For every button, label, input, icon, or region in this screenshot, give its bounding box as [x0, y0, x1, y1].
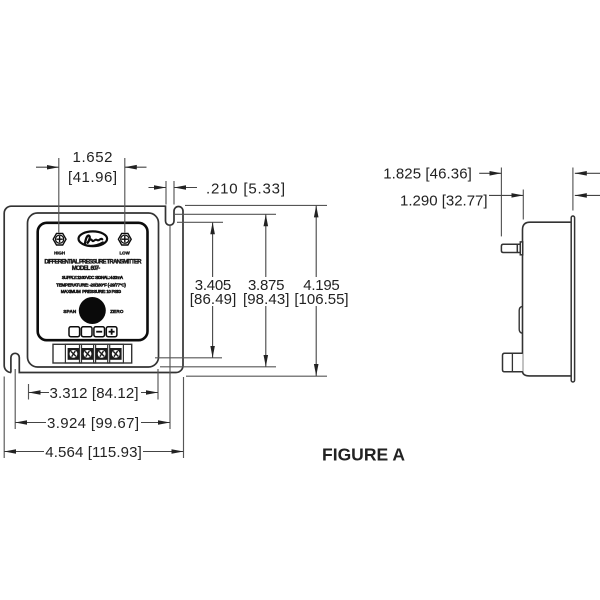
- screw HIGH (left hex screw): [53, 233, 66, 245]
- side view bottom terminal block: [503, 353, 523, 372]
- terminal block outer: [53, 344, 132, 363]
- screw LOW (right hex screw): [118, 233, 131, 245]
- dim 3.924 left arrow: [15, 422, 46, 424]
- indicator square 3 (minus): [94, 327, 105, 337]
- terminal cell 1: [65, 344, 81, 363]
- extension line body left bottom: [28, 384, 30, 400]
- svg-text:1.290 [32.77]: 1.290 [32.77]: [400, 193, 488, 210]
- extension line body left face: [522, 190, 524, 220]
- svg-text:[98.43]: [98.43]: [243, 291, 290, 308]
- svg-text:4.564 [115.93]: 4.564 [115.93]: [45, 444, 142, 461]
- svg-text:TEMPERATURE: -20/180°F (-29/77: TEMPERATURE: -20/180°F (-29/77°C): [56, 282, 126, 287]
- indicator square 1: [69, 327, 80, 337]
- extension line body top: [174, 213, 276, 215]
- svg-text:1.825 [46.36]: 1.825 [46.36]: [383, 166, 472, 183]
- extension line from screw LOW: [124, 158, 126, 233]
- side view small bump: [519, 306, 522, 333]
- dim 3.924 right arrow: [141, 422, 170, 424]
- side view mounting plate bar: [571, 216, 574, 382]
- extension line notch left: [165, 181, 167, 205]
- dim 1.825 right arrow at plate: [575, 172, 600, 174]
- svg-text:LOW: LOW: [119, 251, 130, 256]
- extension line plate right face: [572, 168, 574, 211]
- dim .210 right arrow: [174, 187, 197, 189]
- dim 3.312 right arrow: [141, 392, 158, 394]
- svg-text:ZERO: ZERO: [110, 309, 124, 315]
- extension line plate bottom: [186, 375, 327, 377]
- dim 3.875 vertical line lower: [265, 306, 267, 367]
- extension line notch center (long): [169, 225, 171, 429]
- dim 1.652 right arrow: [125, 166, 147, 168]
- svg-text:SPAN: SPAN: [63, 309, 77, 315]
- extension line notch right: [173, 181, 175, 205]
- extension line notch bottom: [177, 221, 223, 223]
- extension line body bottom: [160, 366, 276, 368]
- svg-text:[86.49]: [86.49]: [190, 291, 237, 308]
- dim 3.405 vertical line lower: [212, 306, 214, 358]
- svg-text:3.312 [84.12]: 3.312 [84.12]: [50, 385, 139, 402]
- extension line port tip: [500, 168, 502, 237]
- terminal cell 4: [108, 344, 124, 363]
- side view pressure port stub: [501, 242, 522, 255]
- svg-text:FIGURE A: FIGURE A: [322, 445, 405, 465]
- adjustment knob (black circle): [79, 297, 106, 324]
- dim 4.195 vertical line lower: [315, 306, 317, 376]
- terminal cell 3: [94, 344, 110, 363]
- svg-text:1.652: 1.652: [73, 149, 113, 166]
- svg-text:[41.96]: [41.96]: [68, 169, 117, 186]
- extension line slot center bottom: [155, 357, 222, 359]
- extension line plate left: [3, 377, 5, 459]
- transmitter body (case, front view): [28, 213, 159, 367]
- indicator square 2: [81, 327, 92, 337]
- svg-text:SUPPLY: 12-30 VDC SIGNAL: 4-2: SUPPLY: 12-30 VDC SIGNAL: 4-20mA: [62, 275, 124, 280]
- dim 4.195 vertical line upper: [315, 205, 317, 277]
- Dwyer logo oval: [79, 231, 108, 246]
- extension line slot center: [14, 369, 16, 429]
- mounting plate (front view) with top notch slot and bottom keyhole slot: [4, 206, 183, 372]
- svg-text:[106.55]: [106.55]: [294, 291, 348, 308]
- side view body outline: [523, 222, 572, 376]
- indicator square 4 (plus): [106, 327, 117, 337]
- svg-text:3.924 [99.67]: 3.924 [99.67]: [47, 415, 139, 432]
- dim 3.312 left arrow: [29, 392, 50, 394]
- dim 1.652 left arrow: [36, 166, 59, 168]
- extension line body right bottom: [157, 369, 159, 400]
- dim 4.564 right arrow: [143, 451, 184, 453]
- dim 1.290 right arrow at plate: [575, 194, 600, 196]
- label plate (thick black rounded border): [38, 223, 148, 340]
- extension line plate right (long): [183, 377, 185, 458]
- extension line plate top: [185, 204, 327, 206]
- svg-text:MODEL 607-: MODEL 607-: [72, 266, 101, 272]
- dim 1.825 arrow: [479, 172, 501, 174]
- dim 4.564 left arrow: [4, 451, 44, 453]
- dim 3.875 vertical line upper: [265, 214, 267, 277]
- dim 1.290 arrow: [489, 194, 523, 196]
- extension line from screw HIGH: [58, 158, 60, 233]
- svg-text:DIFFERENTIAL PRESSURE TRANSMIT: DIFFERENTIAL PRESSURE TRANSMITTER: [44, 259, 142, 265]
- dim 3.405 vertical line upper: [212, 222, 214, 277]
- svg-text:MAXIMUM PRESSURE: 10 PSIG: MAXIMUM PRESSURE: 10 PSIG: [61, 289, 122, 294]
- terminal cell 2: [80, 344, 96, 363]
- dim .210 left arrow: [149, 187, 167, 189]
- svg-text:.210 [5.33]: .210 [5.33]: [206, 180, 285, 197]
- svg-text:HIGH: HIGH: [54, 251, 65, 256]
